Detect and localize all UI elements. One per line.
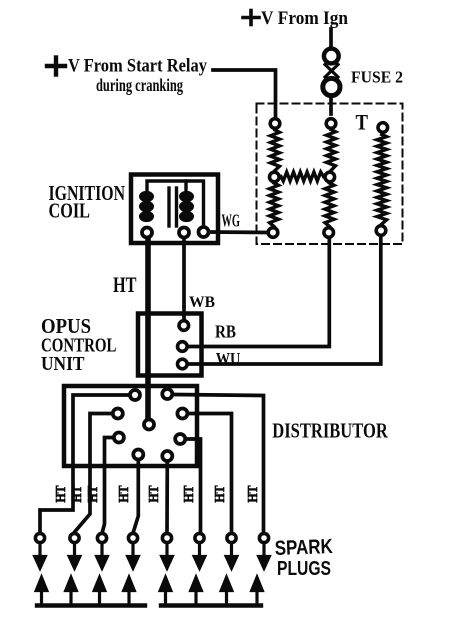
terminal T ballast top-right	[378, 123, 388, 133]
fuse F2 crossover	[325, 65, 338, 78]
label T	[356, 110, 369, 135]
terminal HT8	[259, 533, 268, 542]
wire from start relay to ballast top-left terminal	[213, 70, 276, 117]
resistor middle upper	[327, 130, 336, 171]
distributor terminal right-upper	[177, 409, 187, 419]
distributor terminal right-lower	[175, 434, 185, 444]
fuse F2 bottom circle	[323, 78, 340, 95]
wire plug lead 5 from bottom-right terminal	[165, 463, 169, 532]
label FUSE 2	[351, 68, 403, 87]
terminal ballast top-middle	[326, 119, 336, 129]
terminal HT5	[162, 533, 171, 542]
svg-text:WB: WB	[189, 294, 215, 311]
resistor left upper	[271, 130, 280, 171]
wire fuse to ballast terminal	[329, 98, 333, 115]
labels HT on plug leads	[54, 485, 261, 503]
svg-text:HT: HT	[182, 485, 197, 503]
svg-text:HT: HT	[54, 485, 69, 503]
wire plug lead 6 from right-lower terminal	[187, 439, 201, 532]
terminal HT2	[70, 533, 79, 542]
OPUS terminal WB	[179, 321, 189, 331]
label WG	[222, 210, 241, 230]
svg-text:V From Ign: V From Ign	[261, 9, 349, 29]
resistor middle lower	[325, 183, 334, 227]
wire WG coil to ballast bottom-left	[210, 230, 267, 234]
ballast resistor unit dashed enclosure	[257, 104, 403, 245]
terminal ballast bottom-middle	[324, 228, 334, 238]
wire plug lead 3 from left-lower terminal	[103, 438, 113, 532]
terminal HT3	[97, 533, 106, 542]
OPUS terminal RB	[178, 342, 188, 352]
terminal HT4	[128, 533, 137, 542]
coil primary winding	[139, 191, 154, 222]
terminal HT1	[35, 533, 44, 542]
wire WU to ballast bottom-right	[188, 237, 380, 365]
label OPUS CONTROL UNIT	[41, 314, 117, 375]
coil internal top link	[147, 181, 204, 226]
svg-text:HT: HT	[147, 485, 162, 503]
terminal HT6	[195, 533, 204, 542]
coil core bars	[169, 188, 177, 226]
resistor horizontal between mid-left and mid-middle	[281, 172, 324, 181]
wire from +V From Ign down to fuse	[329, 29, 333, 47]
coil terminal middle (SW)	[179, 228, 189, 238]
wire RB to ballast bottom-middle	[188, 239, 329, 347]
resistor right column	[377, 135, 387, 225]
label DISTRIBUTOR	[272, 418, 388, 442]
coil secondary winding	[179, 191, 194, 222]
spark plug bus left	[37, 603, 145, 607]
coil internal secondary top lead	[184, 181, 187, 190]
ignition coil box	[131, 175, 218, 244]
node +V From Ign plus symbol	[243, 11, 259, 25]
svg-text:FUSE 2: FUSE 2	[351, 68, 403, 87]
distributor center terminal	[144, 420, 154, 430]
label HT	[113, 272, 137, 297]
distributor terminal bottom-right	[162, 451, 172, 461]
wire plug lead 4 from bottom-left terminal	[134, 461, 139, 532]
svg-text:HT: HT	[246, 485, 261, 503]
wire plug lead 1 from top-left terminal	[40, 395, 129, 532]
terminal ballast bottom-right	[376, 226, 386, 236]
terminal ballast top-left	[270, 119, 280, 129]
svg-text:HT: HT	[70, 485, 85, 503]
svg-text:HT: HT	[213, 485, 228, 503]
distributor terminal left-lower	[114, 433, 124, 443]
terminal ballast bottom-left	[268, 228, 278, 238]
terminal HT7	[227, 533, 236, 542]
OPUS terminal WU	[178, 359, 188, 369]
label WB	[189, 294, 215, 311]
down arrows from HT terminals	[35, 545, 270, 569]
terminal ballast mid-middle	[325, 172, 335, 182]
node +V From Start Relay plus symbol	[47, 58, 65, 75]
coil terminal left (CB)	[142, 228, 152, 238]
svg-text:COIL: COIL	[49, 199, 91, 223]
wire plug lead 2 from left-upper terminal	[75, 414, 111, 532]
up arrows on buses (spark plugs)	[36, 578, 262, 604]
node +V From Start Relay label	[68, 57, 208, 96]
node +V From Ign label	[261, 9, 349, 29]
svg-text:T: T	[356, 110, 369, 135]
OPUS control unit box	[138, 314, 202, 376]
svg-text:RB: RB	[215, 322, 236, 342]
svg-text:DISTRIBUTOR: DISTRIBUTOR	[272, 418, 388, 442]
svg-text:PLUGS: PLUGS	[277, 557, 331, 580]
distributor box	[64, 386, 197, 466]
resistor left lower	[270, 183, 279, 227]
svg-text:WG: WG	[222, 210, 241, 230]
svg-text:during cranking: during cranking	[96, 75, 183, 95]
wire plug lead 8 from top-right terminal	[174, 395, 264, 532]
label WU	[216, 349, 241, 368]
svg-text:UNIT: UNIT	[41, 353, 85, 375]
distributor terminal left-upper	[113, 409, 123, 419]
svg-text:HT: HT	[113, 272, 137, 297]
label SPARK PLUGS	[274, 535, 333, 580]
coil terminal right (WG)	[199, 227, 209, 237]
svg-text:V From Start Relay: V From Start Relay	[68, 57, 208, 77]
svg-text:HT: HT	[117, 485, 132, 503]
distributor terminal bottom-left	[133, 450, 143, 460]
spark plug bus right	[161, 603, 261, 607]
wire WB coil middle terminal to OPUS	[182, 239, 186, 320]
label RB	[215, 322, 236, 342]
distributor terminal top-right	[162, 389, 172, 399]
distributor terminal top-left	[130, 390, 140, 400]
label IGNITION COIL	[49, 181, 126, 223]
wire plug lead 7 from right-upper terminal	[189, 414, 232, 532]
fuse F2 top circle	[324, 49, 339, 64]
wire HT lead coil to distributor center (thick)	[145, 239, 151, 418]
svg-text:HT: HT	[86, 485, 101, 503]
terminal ballast mid-left	[270, 172, 280, 182]
